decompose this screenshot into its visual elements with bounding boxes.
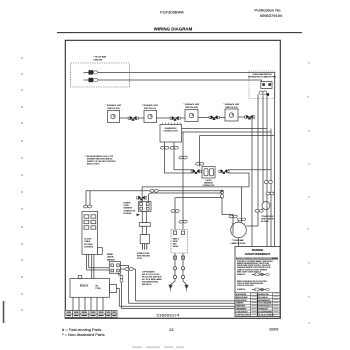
spark module dashed box <box>71 63 130 87</box>
svg-text:ALUM./ALUMINIUM: ALUM./ALUMINIUM <box>259 313 275 316</box>
svg-text:EOC-1: EOC-1 <box>80 283 89 287</box>
EOC electronic oven control <box>78 276 81 279</box>
bus wire L2 <box>182 131 272 133</box>
power cord neck <box>142 212 146 223</box>
svg-text:W/ OVEN: W/ OVEN <box>84 244 93 246</box>
valve terminal pads <box>174 256 177 259</box>
power cord flange <box>139 223 150 227</box>
svg-text:OVEN LAMP SWITCH: OVEN LAMP SWITCH <box>253 73 273 76</box>
bundle connector pairs <box>264 181 272 184</box>
gas valve <box>171 230 188 254</box>
svg-text:13: 13 <box>169 327 174 332</box>
bus wire L3 <box>200 135 275 137</box>
svg-text:VALVE: VALVE <box>173 245 179 248</box>
svg-text:* SURFACE UNIT: * SURFACE UNIT <box>105 104 122 107</box>
chain connector 1 <box>128 116 138 121</box>
wire lamp feed vertical <box>221 191 223 215</box>
valve right feed <box>179 156 187 159</box>
thermostat box <box>160 125 182 143</box>
door latch wires <box>121 266 129 304</box>
door latch switch <box>109 262 120 274</box>
svg-text:Publication No.: Publication No. <box>255 8 282 13</box>
svg-text:COPPER/CUIVRE: COPPER/CUIVRE <box>236 314 251 316</box>
bundle wire 4 door switch feed <box>262 94 264 201</box>
wire A top lamp wire <box>84 72 275 246</box>
oven lamp <box>231 222 247 238</box>
fast-moving marker <box>137 213 140 216</box>
connector on wire M1 <box>150 189 158 192</box>
svg-text:316003174: 316003174 <box>157 312 181 317</box>
svg-text:PINK/ROSE: PINK/ROSE <box>259 309 269 311</box>
chain connector 4 <box>245 115 255 120</box>
oven lamp switch <box>261 82 272 89</box>
wire valve feed horizontal <box>176 197 223 199</box>
middle web wires <box>142 186 249 188</box>
title underline <box>57 32 302 34</box>
EOC tab wire <box>117 289 120 307</box>
right margin artifact dots <box>308 62 311 324</box>
EOC bottom stubs <box>73 297 103 310</box>
svg-text:PURPLE/VIOLET: PURPLE/VIOLET <box>259 306 272 308</box>
svg-text:TIMER: TIMER <box>84 241 91 243</box>
legend table <box>65 311 117 318</box>
svg-text:* SURFACE UNIT: * SURFACE UNIT <box>183 103 200 106</box>
oven lamp feeds <box>222 215 233 235</box>
svg-text:TAN/HAVANE: TAN/HAVANE <box>236 308 247 311</box>
svg-text:IGNITOR: IGNITOR <box>94 59 103 61</box>
svg-text:AT REAR: AT REAR <box>261 220 269 223</box>
thermostat drop wires <box>165 142 194 173</box>
svg-text:* = Non-Illustrated Parts: * = Non-Illustrated Parts <box>62 332 105 337</box>
svg-text:AVERTISSEMENT: AVERTISSEMENT <box>244 252 270 256</box>
bottom faint marks <box>132 347 184 348</box>
svg-text:SWITCH (LF): SWITCH (LF) <box>144 108 156 110</box>
valve terminal circles <box>173 267 176 270</box>
svg-text:ORANGE: ORANGE <box>236 302 244 305</box>
latch harness connector <box>202 167 215 179</box>
ground arrow left <box>168 285 172 290</box>
thermostat connector pairs <box>161 146 169 149</box>
wire B lower lamp wire <box>84 80 262 82</box>
svg-text:CONTROL: CONTROL <box>84 247 93 249</box>
bottom bus wires <box>136 300 236 302</box>
svg-text:LATCH: LATCH <box>206 179 212 182</box>
surface unit switch 4 <box>225 109 238 121</box>
svg-text:SEE NOTE: SEE NOTE <box>142 284 152 286</box>
wire latch row 1 <box>228 169 271 171</box>
svg-text:BROWN/BRUN: BROWN/BRUN <box>259 300 271 302</box>
wire lamp feed 2 <box>241 187 243 223</box>
clock timer connector <box>84 205 92 208</box>
svg-text:CLOCK/: CLOCK/ <box>84 239 92 241</box>
valve left feed <box>171 210 179 213</box>
svg-text:AND AT ZERO: AND AT ZERO <box>87 163 100 166</box>
svg-text:* SURFACE UNIT: * SURFACE UNIT <box>223 103 240 106</box>
svg-text:HARNESS: HARNESS <box>124 207 133 210</box>
svg-text:CTRL): CTRL) <box>96 288 102 290</box>
svg-text:SWITCH (RR): SWITCH (RR) <box>185 107 198 109</box>
svg-text:BLUE/BLEU: BLUE/BLEU <box>259 297 269 299</box>
oven door light switch <box>263 202 264 203</box>
svg-text:WHITE/BLANC: WHITE/BLANC <box>236 296 248 299</box>
svg-text:BURNER SWITCHES ARE AT: BURNER SWITCHES ARE AT <box>87 158 113 161</box>
svg-text:GRAY/GRIS: GRAY/GRIS <box>236 305 246 308</box>
bottom-left edge mark <box>3 301 5 323</box>
surface unit switch 3 <box>185 110 198 122</box>
bus wires right of thermostat <box>182 128 268 130</box>
chain connector 3 <box>209 115 219 120</box>
svg-text:CODE DE COULEUR: CODE DE COULEUR <box>237 285 254 287</box>
svg-text:GREEN/VERT: GREEN/VERT <box>236 300 247 302</box>
bundle wire 2 <box>266 96 268 247</box>
surface unit switch 1 <box>108 111 120 123</box>
EOC tab <box>110 285 117 293</box>
svg-text:PLUG: PLUG <box>137 258 142 260</box>
svg-text:SWITCH: SWITCH <box>107 259 115 261</box>
left margin artifact dashes <box>21 57 23 311</box>
wire to power cord <box>149 193 223 202</box>
wire power cord drop <box>141 187 143 202</box>
valve ground leads <box>171 279 176 285</box>
svg-text:5995379194: 5995379194 <box>260 13 283 18</box>
svg-text:YELLOW/JAUNE: YELLOW/JAUNE <box>259 302 273 305</box>
svg-text:DK GREEN/VERT: DK GREEN/VERT <box>259 311 273 313</box>
svg-text:CONTROL (TOP): CONTROL (TOP) <box>163 131 177 133</box>
svg-text:FGF303BWA: FGF303BWA <box>160 10 184 15</box>
svg-text:DOOR: DOOR <box>107 254 113 256</box>
svg-text:SWITCH (RF): SWITCH (RF) <box>107 108 120 110</box>
svg-text:LATCH: LATCH <box>107 256 114 259</box>
svg-text:DISCONNECT POWER BEFORE SERVIC: DISCONNECT POWER BEFORE SERVICING <box>237 258 273 260</box>
svg-text:RED/ROUGE: RED/ROUGE <box>259 294 270 296</box>
chain connector 2 <box>170 116 180 121</box>
wire valve left feed <box>174 198 176 231</box>
svg-text:* OVEN LAMP: * OVEN LAMP <box>232 239 244 242</box>
wire lamp right terminal <box>246 225 258 227</box>
clock bottom leads <box>86 254 88 270</box>
bundle wire 1 <box>257 94 259 226</box>
svg-text:LT BLUE/BLEU: LT BLUE/BLEU <box>236 311 248 313</box>
svg-text:HARNESS: HARNESS <box>204 182 213 185</box>
outer border <box>65 40 280 318</box>
wire valve right feed <box>182 132 184 230</box>
svg-text:BLACK/NOIR: BLACK/NOIR <box>236 293 247 296</box>
switch chain wires <box>120 117 145 119</box>
lamp switch connector <box>259 91 263 94</box>
svg-text:* THE RESISTANCE OF ALL TOP: * THE RESISTANCE OF ALL TOP <box>85 155 114 158</box>
latch feed vertical <box>199 136 201 167</box>
power cord plug <box>140 235 149 244</box>
svg-text:SWITCH (LR): SWITCH (LR) <box>225 107 238 109</box>
warning color table <box>235 293 280 317</box>
svg-text:LAMPE DE FOUR: LAMPE DE FOUR <box>231 242 246 245</box>
lamp switch dotted enclosure <box>249 71 275 99</box>
svg-text:* GLOW BAR: * GLOW BAR <box>94 56 107 59</box>
svg-text:* SURFACE UNIT: * SURFACE UNIT <box>142 104 159 107</box>
surface unit switch 2 <box>144 111 157 123</box>
svg-text:WIRING DIAGRAM: WIRING DIAGRAM <box>154 27 193 32</box>
svg-text:THERMOSTAT: THERMOSTAT <box>164 127 177 130</box>
svg-text:EXAMPLE:: EXAMPLE: <box>237 273 246 276</box>
power cord harness connector block <box>139 202 152 212</box>
svg-text:EXEMPLE:: EXEMPLE: <box>237 289 246 291</box>
wire latch row 2 <box>228 173 249 187</box>
junction connector on lamp feed <box>221 190 224 194</box>
svg-text:AT REAR: AT REAR <box>124 212 132 215</box>
warning table <box>235 247 280 317</box>
wire M2 horizontal <box>86 190 222 192</box>
clock timer <box>82 212 98 255</box>
svg-text:10/02: 10/02 <box>269 327 279 331</box>
plug prongs <box>143 244 147 250</box>
ground arrow right <box>184 285 188 290</box>
wire lamp bottom <box>238 238 240 247</box>
svg-text:INTERRUPTED BY LAMPS IN FIELD: INTERRUPTED BY LAMPS IN FIELD <box>248 76 277 79</box>
bundle wire 3 <box>270 129 272 247</box>
